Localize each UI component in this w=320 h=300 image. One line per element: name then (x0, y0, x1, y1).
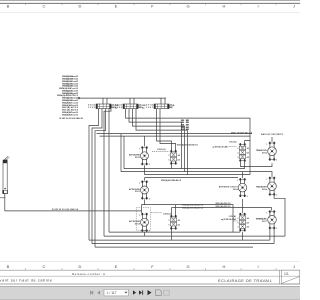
svg-text:B: B (7, 4, 10, 9)
svg-text:2: 2 (169, 220, 170, 222)
wire C20 bottom to lamp E5 (240, 162, 272, 167)
wire group3 pin1 (157, 109, 172, 150)
svg-text:5000: 5000 (135, 157, 141, 159)
label E3 (129, 220, 141, 225)
svg-text:ap IR DE LA CAB: ap IR DE LA CAB (221, 218, 236, 221)
svg-text:2: 2 (238, 148, 239, 150)
wire bottom row5 (95, 246, 253, 248)
svg-text:W26 (A) AV1 DELAV 0.5: W26 (A) AV1 DELAV 0.5 (161, 179, 182, 182)
inline connector C20 (238, 143, 250, 162)
svg-text:2: 2 (276, 160, 277, 162)
svg-text:B: B (7, 264, 10, 269)
svg-text:2: 2 (276, 195, 277, 197)
svg-text:W26 (A) AV0 0.5: W26 (A) AV0 0.5 (216, 205, 232, 208)
wire C29B top (170, 208, 172, 215)
svg-text:W26 (A) AV6 ws 0.5: W26 (A) AV6 ws 0.5 (62, 113, 79, 116)
svg-text:5004: 5004 (233, 188, 239, 191)
harness wire list labels (57, 75, 79, 116)
svg-text:4: 4 (238, 156, 239, 159)
wire frame left A (120, 134, 122, 172)
svg-text:C207: C207 (146, 107, 154, 109)
svg-text:C206 (A): C206 (A) (157, 148, 166, 151)
wire E1 top feed (144, 136, 146, 146)
label E7 (256, 218, 268, 223)
wire E3 top (141, 205, 143, 213)
wire bottom row3 (89, 239, 270, 241)
wire group2 pin1 feed (126, 109, 251, 175)
wire E2 bottom (144, 199, 146, 204)
svg-text:B 983 W 09 006 0BA 04 →: B 983 W 09 006 0BA 04 → (60, 117, 86, 120)
svg-text:C205: C205 (88, 107, 96, 109)
label E1 (129, 154, 141, 159)
svg-text:2: 2 (149, 198, 150, 200)
svg-text:1: 1 (139, 148, 140, 150)
wire group1 pin3 (95, 109, 106, 248)
work lamp E6 TRAV AV DRT (266, 177, 277, 197)
svg-text:C29 (A): C29 (A) (229, 215, 237, 218)
wire bottom row1 (109, 231, 240, 233)
label E6 (256, 186, 268, 191)
inline connector C29C (238, 213, 250, 232)
wire bundle row3 (145, 174, 251, 176)
svg-text:G: G (186, 4, 189, 9)
svg-text:2: 2 (149, 164, 150, 166)
svg-text:2: 2 (276, 228, 277, 230)
wire C29B bottom (170, 230, 172, 241)
connector X207 (146, 98, 175, 109)
svg-text:D: D (79, 4, 82, 9)
svg-text:vant sur haut de cabine: vant sur haut de cabine (0, 279, 52, 283)
work lamp E4 ARRIERE DRT (237, 178, 248, 198)
wire C29A bottom (170, 165, 172, 169)
label E5 (256, 149, 268, 154)
wire C20 top feed (245, 141, 250, 144)
svg-text:C: C (43, 4, 46, 9)
wire mid line B (171, 208, 271, 211)
svg-text:H: H (223, 264, 226, 269)
wire group2 pin4 (136, 109, 188, 175)
svg-text:I: I (257, 4, 258, 9)
svg-text:6: 6 (238, 222, 239, 224)
svg-text:1 / 117: 1 / 117 (107, 291, 117, 295)
svg-text:E: E (115, 264, 118, 269)
svg-text:I: I (257, 264, 258, 269)
wire mid line A (142, 205, 234, 232)
wire E2 top (144, 178, 146, 181)
svg-text:C206: C206 (115, 107, 123, 109)
svg-text:2: 2 (169, 155, 170, 157)
wire E5 top (271, 137, 273, 142)
svg-text:4: 4 (238, 226, 239, 229)
svg-text:6: 6 (238, 153, 239, 155)
wire group2 pin2 (129, 109, 182, 169)
inline connector C29B (169, 215, 181, 230)
svg-text:1: 1 (266, 212, 267, 214)
wire group1 pin5 (104, 109, 111, 237)
svg-text:5006: 5006 (262, 189, 268, 191)
wire bottom row2 (104, 235, 285, 237)
svg-text:1/1: 1/1 (284, 272, 289, 276)
svg-text:C206 (A): C206 (A) (163, 213, 172, 216)
work lamp E1 AVT GAUCHE (139, 146, 150, 166)
svg-text:5007: 5007 (262, 221, 268, 223)
wire E3 bottom (144, 232, 146, 236)
dashed pointer C20 (229, 146, 237, 148)
wire frame outer (97, 133, 253, 135)
svg-text:281 BK: 281 BK (181, 129, 185, 131)
svg-text:1: 1 (266, 144, 267, 146)
wire B983 (5, 194, 142, 211)
option dashed box around E3 (136, 208, 150, 231)
svg-text:D: D (79, 264, 82, 269)
PAGE CHROME BOTTOM (0, 262, 300, 284)
svg-text:1: 1 (139, 215, 140, 217)
svg-text:BADI AF SECURITE: BADI AF SECURITE (261, 133, 284, 136)
wire bundle row1 (124, 168, 245, 170)
wire E6 bottom right C (274, 196, 285, 237)
svg-text:5005: 5005 (262, 152, 268, 154)
inline connector C29A (169, 150, 181, 165)
svg-text:2: 2 (247, 196, 248, 198)
wire frame left B (123, 136, 125, 169)
wire group3 pin2 (160, 109, 176, 150)
svg-text:Release-number: A: Release-number: A (72, 272, 105, 276)
wire bundle row4 (145, 177, 239, 179)
PDF VIEWER TOOLBAR (0, 286, 300, 300)
wire group1 pin1 (89, 109, 99, 241)
svg-text:E: E (115, 4, 118, 9)
svg-text:G: G (186, 264, 189, 269)
ground baseline at mast (0, 197, 5, 199)
work lamp E7 ARR TE BLANC (266, 210, 277, 230)
wire main bus (79, 97, 166, 99)
wire frame inner (100, 135, 251, 137)
svg-text:6: 6 (169, 224, 170, 226)
PAGE CHROME TOP (0, 1, 300, 13)
svg-text:W247 (A) AV6 SEC 0.5: W247 (A) AV6 SEC 0.5 (231, 131, 253, 134)
connector X205 (88, 98, 119, 109)
svg-text:ECLAIRAGE DE TRAVAIL: ECLAIRAGE DE TRAVAIL (218, 278, 273, 283)
svg-text:B:: B: (173, 105, 176, 107)
wire E7 bottom (269, 229, 271, 240)
connector X206 (115, 98, 146, 109)
junction node (78, 97, 81, 100)
label E2 (129, 188, 141, 193)
bundle pin labels (181, 120, 190, 131)
wire bundle row2 (121, 172, 272, 177)
svg-text:C20 (A): C20 (A) (229, 141, 237, 144)
svg-text:ap IR DE LA CAB: ap IR DE LA CAB (213, 146, 228, 149)
svg-text:2: 2 (238, 218, 239, 220)
wire group2 pin3 (133, 109, 185, 172)
svg-text:W26 (A) AV2 DELAV 0.5: W26 (A) AV2 DELAV 0.5 (177, 143, 199, 146)
svg-text:1: 1 (237, 180, 238, 182)
work lamp E2 AVTE BLEU (139, 181, 150, 201)
svg-text:5001: 5001 (135, 191, 141, 193)
svg-text:B 983 W 09 006 0BA 04: B 983 W 09 006 0BA 04 (52, 208, 79, 211)
svg-text:1: 1 (139, 183, 140, 185)
wire group1 pin4 (108, 109, 110, 233)
svg-text:H: H (223, 4, 226, 9)
wire group1 pin2 (92, 109, 102, 244)
work lamp E3 AVT ROUGE (139, 213, 150, 233)
wire C29C bottom (242, 232, 244, 240)
svg-text:282 BK: 282 BK (186, 129, 190, 131)
dashed pointer C206b (151, 212, 162, 214)
svg-text:J: J (293, 264, 295, 269)
wire E4 bottom (242, 199, 244, 213)
svg-text:W26 (A) AV0 0.5: W26 (A) AV0 0.5 (216, 202, 232, 205)
svg-text:6: 6 (169, 159, 170, 161)
work lamp E5 TRAV AV GAUCHE (266, 142, 277, 162)
beacon mast B1 (3, 156, 10, 193)
label E4 (219, 185, 239, 190)
svg-text:J: J (293, 4, 295, 9)
svg-text:C: C (43, 264, 46, 269)
svg-text:5002: 5002 (135, 224, 141, 226)
wire E1 bottom (144, 165, 146, 174)
svg-text:1: 1 (266, 179, 267, 181)
wire bottom row4 (92, 243, 274, 245)
